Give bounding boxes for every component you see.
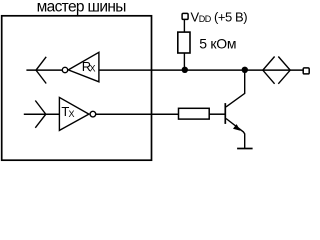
arrow bus continuation left chevron bbox=[263, 57, 275, 84]
svg-text:мастер шины: мастер шины bbox=[37, 0, 127, 15]
svg-text:5 кОм: 5 кОм bbox=[199, 36, 236, 52]
wire collector vertical + diagonal to base bar bbox=[226, 70, 245, 107]
wire TX input stub bbox=[24, 113, 60, 115]
node junction collector/bus bbox=[242, 67, 248, 73]
transistor Q1 base bar bbox=[224, 103, 226, 124]
node junction pull-up/bus bbox=[182, 67, 188, 73]
arrow bus continuation right chevron bbox=[278, 57, 290, 84]
inverter bubble TX bbox=[90, 111, 96, 117]
ground bbox=[237, 148, 253, 150]
emitter arrowhead bbox=[233, 124, 240, 131]
terminal VDD bbox=[182, 13, 188, 19]
wire TX output to resistor bbox=[96, 113, 179, 115]
arrow RX output pointing left bbox=[36, 57, 46, 84]
buffer TX triangle bbox=[59, 97, 89, 130]
transistor Q1 emitter wire bbox=[226, 119, 245, 149]
bus master box bbox=[2, 16, 152, 160]
inverter bubble RX bbox=[62, 67, 67, 72]
resistor R2 base series (horizontal) bbox=[179, 108, 210, 119]
buffer RX triangle bbox=[68, 52, 99, 82]
wire resistor to base bbox=[209, 113, 224, 115]
wire SDA bus line bbox=[99, 69, 303, 71]
wire RX output stub bbox=[26, 69, 62, 71]
wire VDD terminal to resistor bbox=[183, 19, 185, 32]
wire resistor to bus node bbox=[183, 53, 185, 70]
resistor R1 pull-up 5 kOhm (vertical) bbox=[178, 32, 190, 53]
arrow TX input pointing right bbox=[35, 101, 46, 128]
terminal SDA right bbox=[303, 68, 309, 74]
